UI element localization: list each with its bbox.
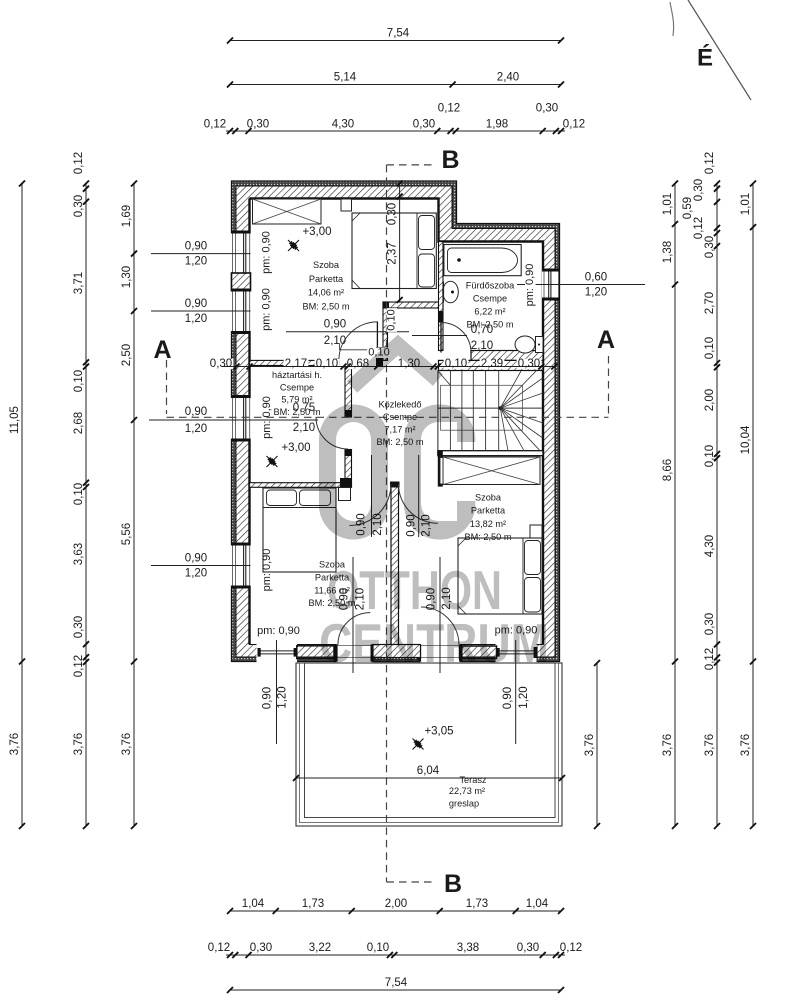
svg-text:1,20: 1,20 [185,423,207,435]
svg-text:1,20: 1,20 [277,686,289,708]
bathtub [444,245,521,276]
svg-text:pm: 0,90: pm: 0,90 [524,264,536,307]
svg-text:7,54: 7,54 [387,28,410,40]
svg-text:0,12: 0,12 [560,942,582,954]
svg-text:1,20: 1,20 [585,287,607,299]
svg-text:+3,00: +3,00 [302,226,331,238]
svg-text:0,10: 0,10 [704,445,716,467]
window dimension lines left [151,253,251,255]
terrace door arc right (hinge left) [421,607,459,645]
svg-text:2,40: 2,40 [497,72,519,84]
svg-text:0,12: 0,12 [704,152,716,174]
svg-text:0,10: 0,10 [73,370,85,392]
window W1 left bedroom1 [231,234,252,274]
svg-text:0,90: 0,90 [262,687,274,709]
bathroom south wall [471,351,543,361]
basin [443,281,459,303]
exterior wall insulation band [232,181,560,662]
right dimension lines [596,663,598,826]
interior dim line y365 [209,359,234,369]
bedroom1 wardrobe [253,199,322,224]
svg-text:0,12: 0,12 [438,103,460,115]
svg-text:0,30: 0,30 [247,119,269,131]
svg-text:A: A [597,326,615,354]
svg-text:14,06 m²: 14,06 m² [308,288,344,298]
svg-text:Csempe: Csempe [473,294,507,304]
svg-text:1,20: 1,20 [185,256,207,268]
bedroom2 nightstand [530,525,542,538]
top dimension lines [230,40,561,42]
svg-text:BM: 2,50 m: BM: 2,50 m [303,301,350,311]
svg-text:3,22: 3,22 [309,942,331,954]
svg-text:0,90: 0,90 [185,298,207,310]
svg-text:1,73: 1,73 [466,898,488,910]
utility east wall upper [345,366,352,417]
section line B-B [387,164,433,166]
svg-text:0,30: 0,30 [517,942,539,954]
svg-text:3,76: 3,76 [73,733,85,755]
svg-text:1,38: 1,38 [662,241,674,263]
north arrow [688,0,751,100]
svg-text:10,04: 10,04 [740,425,752,454]
bedroom1 door leaf+arc [376,322,378,361]
svg-text:0,30: 0,30 [73,195,85,217]
svg-text:1,30: 1,30 [121,266,133,288]
partition: passage top wall [383,302,443,308]
svg-text:0,90: 0,90 [185,553,207,565]
svg-text:2,00: 2,00 [704,389,716,411]
svg-text:11,05: 11,05 [9,406,21,434]
svg-text:2,37: 2,37 [387,242,399,264]
bedroom1 nightstand [341,199,352,211]
bathroom window east wall [542,272,560,298]
svg-text:B: B [441,146,459,174]
svg-text:2,50: 2,50 [121,344,133,366]
utility east wall lower [345,450,352,488]
svg-text:0,90: 0,90 [502,687,514,709]
left dimension lines [21,184,23,827]
svg-text:3,76: 3,76 [9,733,21,755]
svg-text:6,22 m²: 6,22 m² [474,307,505,317]
svg-text:0,30: 0,30 [73,616,85,638]
svg-text:0,10: 0,10 [73,483,85,505]
exterior wall hatched band [236,186,555,657]
svg-text:4,30: 4,30 [332,119,354,131]
svg-text:2,00: 2,00 [385,898,407,910]
svg-text:0,30: 0,30 [413,119,435,131]
bedroom2 bed [458,538,542,614]
svg-text:0,12: 0,12 [208,942,230,954]
partition: bathroom west wall [439,242,444,351]
central wall between lower bedrooms [391,484,399,646]
svg-text:3,71: 3,71 [73,272,85,294]
pier between windows [232,273,251,292]
wc [515,336,535,353]
svg-text:0,30: 0,30 [210,358,232,370]
svg-text:1,69: 1,69 [121,205,133,227]
terrace dimension 6,04 [296,777,562,779]
svg-text:5,56: 5,56 [121,523,133,545]
svg-text:1,20: 1,20 [518,686,530,708]
svg-text:É: É [697,44,713,72]
svg-text:8,66: 8,66 [662,459,674,481]
small 0,10 labels [387,308,389,332]
svg-text:3,63: 3,63 [73,543,85,565]
svg-text:pm: 0,90: pm: 0,90 [261,549,273,592]
svg-text:0,10: 0,10 [367,942,389,954]
svg-text:0,30: 0,30 [693,179,705,201]
svg-text:0,30: 0,30 [536,103,558,115]
svg-text:A: A [153,336,171,364]
terrace door arc left (hinge right) [338,613,370,645]
svg-text:greslap: greslap [449,799,479,809]
bathroom door dimension [412,335,467,337]
svg-text:+3,05: +3,05 [424,726,453,738]
svg-text:5,14: 5,14 [334,72,357,84]
partition: notch vertical wall [383,302,388,360]
central wall T-foot [373,645,421,658]
utility south wall [250,483,352,488]
svg-text:pm: 0,90: pm: 0,90 [261,396,273,439]
staircase [437,371,439,451]
svg-text:22,73 m²: 22,73 m² [449,786,485,796]
svg-text:1,20: 1,20 [185,568,207,580]
stairs north wall [439,360,544,370]
bathroom door leaf+arc [440,323,442,353]
svg-text:3,76: 3,76 [704,734,716,756]
svg-text:0,12: 0,12 [204,119,226,131]
section line A-A [166,360,168,414]
svg-text:Fürdőszoba: Fürdőszoba [466,281,515,291]
svg-text:0,12: 0,12 [73,152,85,174]
svg-text:1,73: 1,73 [302,898,324,910]
svg-text:Szoba: Szoba [313,260,340,270]
svg-text:pm: 0,90: pm: 0,90 [261,288,273,331]
svg-text:1,04: 1,04 [242,898,265,910]
svg-text:3,76: 3,76 [584,734,596,756]
bathroom window dimension [517,284,645,286]
bedroom3 nightstand [339,488,351,501]
level marker utility [267,456,278,467]
svg-text:3,76: 3,76 [740,734,752,756]
window W2 left bedroom1 [231,292,252,332]
svg-text:6,04: 6,04 [417,765,440,777]
window W3 left utility [231,398,252,439]
bottom dimension lines [230,910,561,912]
vertical dim 0,30/2,37 [399,184,401,303]
svg-text:4,30: 4,30 [704,535,716,557]
svg-text:0,90: 0,90 [185,241,207,253]
leader lines [276,640,278,744]
svg-text:0,60: 0,60 [585,272,607,284]
svg-text:1,20: 1,20 [185,313,207,325]
svg-text:0,90: 0,90 [185,406,207,418]
svg-text:B: B [444,870,462,898]
svg-text:pm: 0,90: pm: 0,90 [261,231,273,274]
bottom wall window/door gaps [257,644,298,663]
svg-text:Parketta: Parketta [309,274,344,284]
terrace outline [296,663,562,826]
svg-text:0,30: 0,30 [704,613,716,635]
bedroom1 bed [352,213,436,289]
svg-text:0,12: 0,12 [73,655,85,677]
svg-text:1,01: 1,01 [662,193,674,215]
svg-text:0,30: 0,30 [250,942,272,954]
svg-text:3,38: 3,38 [457,942,479,954]
svg-text:Terasz: Terasz [459,775,486,785]
partition: bedroom1 bottom wall [250,360,340,365]
svg-text:1,01: 1,01 [740,193,752,215]
svg-text:0,10: 0,10 [704,337,716,359]
bedroom1 door dimension [286,331,409,333]
svg-text:0,30: 0,30 [387,203,399,225]
svg-text:1,98: 1,98 [486,119,508,131]
svg-text:2,68: 2,68 [73,412,85,434]
svg-text:0,30: 0,30 [704,236,716,258]
window W4 left bedroom3 [231,546,252,586]
bedroom2 wardrobe [443,457,540,485]
svg-text:0,12: 0,12 [704,648,716,670]
svg-text:0,12: 0,12 [563,119,585,131]
svg-text:2,70: 2,70 [704,292,716,314]
svg-text:1,04: 1,04 [526,898,549,910]
svg-text:0,59: 0,59 [682,197,694,219]
svg-text:7,54: 7,54 [385,977,408,989]
level marker terrace [413,739,424,750]
svg-text:3,76: 3,76 [662,734,674,756]
stairs south wall + jamb [438,451,543,456]
bedroom3 bed [263,488,336,572]
level marker bedroom1 [288,240,299,251]
utility door arc [316,417,348,449]
corridor door arcs to bedrooms [350,484,392,526]
svg-text:3,76: 3,76 [121,733,133,755]
